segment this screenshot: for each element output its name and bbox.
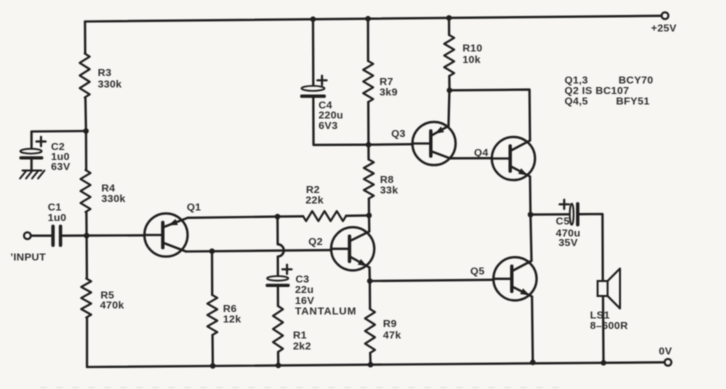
svg-text:0V: 0V [659,346,672,358]
svg-text:330k: 330k [101,193,125,205]
node R7/R8/C4/Q3 junction [366,142,372,148]
wire C1 to node B1 [62,234,86,236]
label Q5 [470,266,484,278]
wire R7 bottom lead [367,102,370,145]
wire input terminal to C1 [31,235,51,237]
label C4 value [319,100,344,132]
wire junction to Q3 base [369,143,413,146]
node E junction Q2 emitter/R9/Q5 base [367,278,373,284]
capacitor C4 [302,76,327,97]
node B1 junction C1/R4/R5/Q1 base [84,233,90,239]
svg-text:47k: 47k [383,330,401,342]
label C3 value [295,274,357,318]
label Q1 [187,202,201,214]
node junction R6 on Q1 collector wire [209,248,215,254]
wire Q1 emitter to node A [188,217,278,218]
node D junction R10/Q3 emitter/Q4 collector [447,88,453,94]
wire node F to C5 [531,213,570,216]
svg-text:1u0: 1u0 [48,212,67,224]
node F junction Q4 emitter/Q5 collector/C5 [528,212,534,218]
resistor R7 [363,61,373,102]
svg-text:33k: 33k [380,185,398,197]
wire node E to Q5 base [370,280,493,281]
wire Q3 collector to Q4 base [450,157,492,159]
wire node V1 to C2 [32,131,87,149]
resistor R4 [81,170,91,212]
svg-text:Q4: Q4 [474,147,488,159]
label R9 value [383,318,401,342]
wire R2 to node B [346,214,369,217]
wire R5 to bottom rail [86,318,88,368]
svg-text:470k: 470k [100,300,124,312]
wire node B1 to Q1 base [87,234,145,237]
svg-text:+25V: +25V [651,23,677,35]
capacitor C1 [53,226,61,245]
svg-text:R9: R9 [383,318,397,330]
label LS1 value [590,310,628,333]
node speaker/0V junction [601,360,607,366]
resistor R3 [80,54,90,98]
wire R8 bottom lead [368,199,370,216]
wire left rail vertical segment above R3 [84,22,87,54]
wire Q4 emitter down through node F to Q5 collector [530,177,532,261]
node V1 junction R3/R4/C2 [83,128,89,134]
wire R10 bottom lead [448,76,451,90]
transistor Q3 [412,122,455,165]
wire C3 to R1 [277,285,279,306]
svg-text:2k2: 2k2 [293,341,311,353]
transistor Q5 [493,257,536,300]
wire R8 top lead [367,145,369,160]
wire bottom 0V rail [87,362,665,367]
label C2 value [51,141,70,173]
wire R6 top lead [211,251,214,295]
label R1 value [293,330,311,353]
svg-text:BFY51: BFY51 [616,96,650,108]
wire top +25V rail [85,16,662,22]
transistor Q4 [492,137,535,180]
capacitor C2 [20,137,45,158]
svg-text:Q5: Q5 [470,266,484,278]
label R6 value [223,303,241,326]
svg-text:Q3: Q3 [391,128,405,140]
transistor Q2 [331,227,374,270]
label C1 value [48,202,67,225]
svg-text:10k: 10k [463,54,481,66]
wire Q5 emitter to bottom rail [531,297,534,363]
wire node B1 to R5 [85,236,88,279]
svg-text:22k: 22k [306,195,324,207]
wire R6 to bottom rail [211,335,214,366]
node R6/0V junction [210,363,216,369]
label +25V [651,23,677,35]
svg-text:’INPUT: ’INPUT [10,252,46,264]
svg-text:12k: 12k [223,314,241,326]
node Q5 emitter/0V junction [530,360,536,366]
wire R9 to bottom rail [369,353,372,365]
terminal INPUT [24,232,31,239]
transistor Q1 [144,213,188,256]
label INPUT [10,252,46,264]
label R10 value [463,43,483,67]
resistor R6 [207,295,217,335]
wire Q3 emitter up to node D [447,90,450,126]
label 0V [659,346,672,358]
wire R7 top lead [367,19,369,61]
svg-text:3k9: 3k9 [380,87,398,99]
resistor R8 [364,160,374,199]
wire C4 bottom lead to Q3 base wire [313,96,368,145]
svg-text:8–600R: 8–600R [590,320,628,332]
label Q2 [308,236,322,248]
node R10/+25V junction [446,15,452,21]
wire Q2 collector to node B [368,215,371,231]
label R5 value [100,290,124,312]
speaker LS1 [598,269,620,309]
wire R1 to bottom rail [277,352,280,365]
wire R3 to node V1 [84,98,87,132]
node C4/+25V junction [310,16,316,22]
node A junction Q1/R2/C3 [275,214,281,220]
svg-text:R10: R10 [463,43,483,55]
terminal 0V [665,359,672,366]
wire node D to Q4 collector corner [450,90,531,141]
wire C5 to speaker [579,214,602,281]
svg-text:35V: 35V [559,237,578,249]
node R9/0V junction [368,362,374,368]
wire node E to R9 [369,281,372,309]
wire speaker to bottom rail [602,296,605,363]
wire R10 top lead [448,18,450,35]
resistor R9 [365,309,375,353]
wire node V1 to R4 [85,131,88,170]
terminal +25V [662,12,669,19]
node R7/+25V junction [365,16,371,22]
label Q3 [391,128,405,140]
node R1/0V junction [276,363,282,369]
svg-text:Q4,5: Q4,5 [565,96,589,108]
svg-text:330k: 330k [98,79,122,91]
svg-text:C5: C5 [556,216,570,228]
node B junction R2/R8/Q2 collector [366,213,372,219]
svg-text:Q2: Q2 [308,236,322,248]
label C5 value [556,216,581,250]
wire node A to R2 [278,215,304,218]
wire Q1 collector to Q2 base [186,250,331,251]
capacitor C3 [267,265,292,286]
resistor R10 [444,35,454,76]
svg-text:6V3: 6V3 [319,120,338,132]
capacitor C5 [560,200,578,225]
svg-text:TANTALUM: TANTALUM [295,306,357,318]
label transistor types [565,75,654,108]
svg-text:R3: R3 [98,67,112,79]
wire Q2 emitter to node E [368,268,371,282]
label R7 value [380,76,398,99]
wire node A down to crossover hop [278,217,284,277]
resistor R5 [81,279,91,318]
svg-text:63V: 63V [51,161,70,173]
wire C4 top lead [312,19,315,86]
label Q4 [474,147,488,159]
resistor R1 [273,306,283,352]
label R3 value [98,67,122,91]
wire R4 to node B1 [85,212,88,236]
resistor R2 [303,211,346,221]
label R8 value [380,174,398,197]
ground [20,171,45,179]
label R4 value [101,183,125,206]
svg-text:Q1: Q1 [187,202,201,214]
wire C2 to ground [30,158,32,170]
label R2 value [306,184,324,207]
